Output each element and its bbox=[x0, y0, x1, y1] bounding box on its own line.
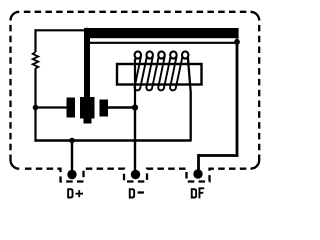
node junction B2 (D+ tap) bbox=[69, 138, 75, 144]
resistor R (regulating resistor) bbox=[33, 52, 39, 68]
wire left vertical lower (resistor bottom lead) bbox=[34, 68, 36, 141]
regulator housing dashed border left edge bbox=[9, 25, 11, 160]
terminal D- dot bbox=[131, 170, 140, 179]
wire D+ drop bbox=[71, 141, 73, 173]
regulator housing dashed border bottom edge with terminal slots bbox=[24, 169, 247, 182]
armature thick vertical bar bbox=[84, 38, 90, 98]
coil winding left lead (up through core) bbox=[134, 59, 136, 108]
label DF bbox=[192, 189, 196, 197]
coil winding turn 2 loop bbox=[146, 51, 153, 58]
wire D- vertical (coil lead down to terminal) bbox=[134, 108, 136, 172]
contact right fixed bbox=[100, 100, 109, 117]
wire right vertical (to DF) bbox=[236, 39, 239, 157]
terminal D+ dot bbox=[67, 170, 76, 179]
wire right contact to coil bbox=[108, 106, 135, 108]
coil winding turn 3 loop bbox=[158, 51, 165, 58]
coil winding turn 5 loop bbox=[182, 51, 189, 58]
armature stub below bbox=[84, 119, 92, 124]
coil winding turn 4 diagonal and bottom arc bbox=[170, 57, 182, 91]
bus bar thick top (armature frame) bbox=[84, 28, 239, 38]
node junction D (top right corner) bbox=[234, 39, 240, 45]
regulator housing dashed border corner bottom-right bbox=[251, 160, 260, 169]
label D- bbox=[130, 189, 134, 197]
terminal DF dot bbox=[193, 169, 202, 178]
coil winding turn 1 loop bbox=[135, 51, 142, 58]
coil winding right lead down bbox=[188, 57, 191, 142]
wire bottom horizontal (resistor to coil end) bbox=[34, 139, 190, 141]
node junction B1 (left contact tap) bbox=[33, 105, 39, 111]
coil winding turn 3 diagonal and bottom arc bbox=[158, 57, 170, 91]
wire DF horizontal bbox=[199, 154, 239, 157]
wire DF drop bbox=[197, 154, 200, 171]
contact left fixed bbox=[67, 98, 76, 118]
contact moving armature block bbox=[80, 97, 95, 119]
regulator housing dashed border right edge bbox=[258, 25, 260, 160]
wire to left fixed contact bbox=[36, 106, 67, 108]
wire thin parallel under bus bar bbox=[88, 42, 236, 44]
regulator housing dashed border top edge bbox=[24, 11, 251, 13]
regulator housing dashed border corner bottom-left bbox=[11, 160, 20, 169]
relay coil core rectangle bbox=[117, 64, 202, 85]
regulator housing dashed border corner top-left bbox=[11, 12, 20, 21]
wire top-left horizontal bbox=[36, 29, 87, 31]
wire left vertical upper (resistor top lead) bbox=[34, 29, 36, 52]
coil winding turn 1 diagonal and bottom arc bbox=[135, 57, 147, 91]
coil winding turn 4 loop bbox=[170, 51, 177, 58]
regulator housing dashed border corner top-right bbox=[251, 12, 260, 21]
coil winding turn 2 diagonal and bottom arc bbox=[146, 57, 158, 91]
label D+ bbox=[68, 189, 72, 197]
node junction A (top bar / resistor wire) bbox=[84, 28, 90, 34]
node junction C (coil / D- tap) bbox=[132, 104, 138, 110]
